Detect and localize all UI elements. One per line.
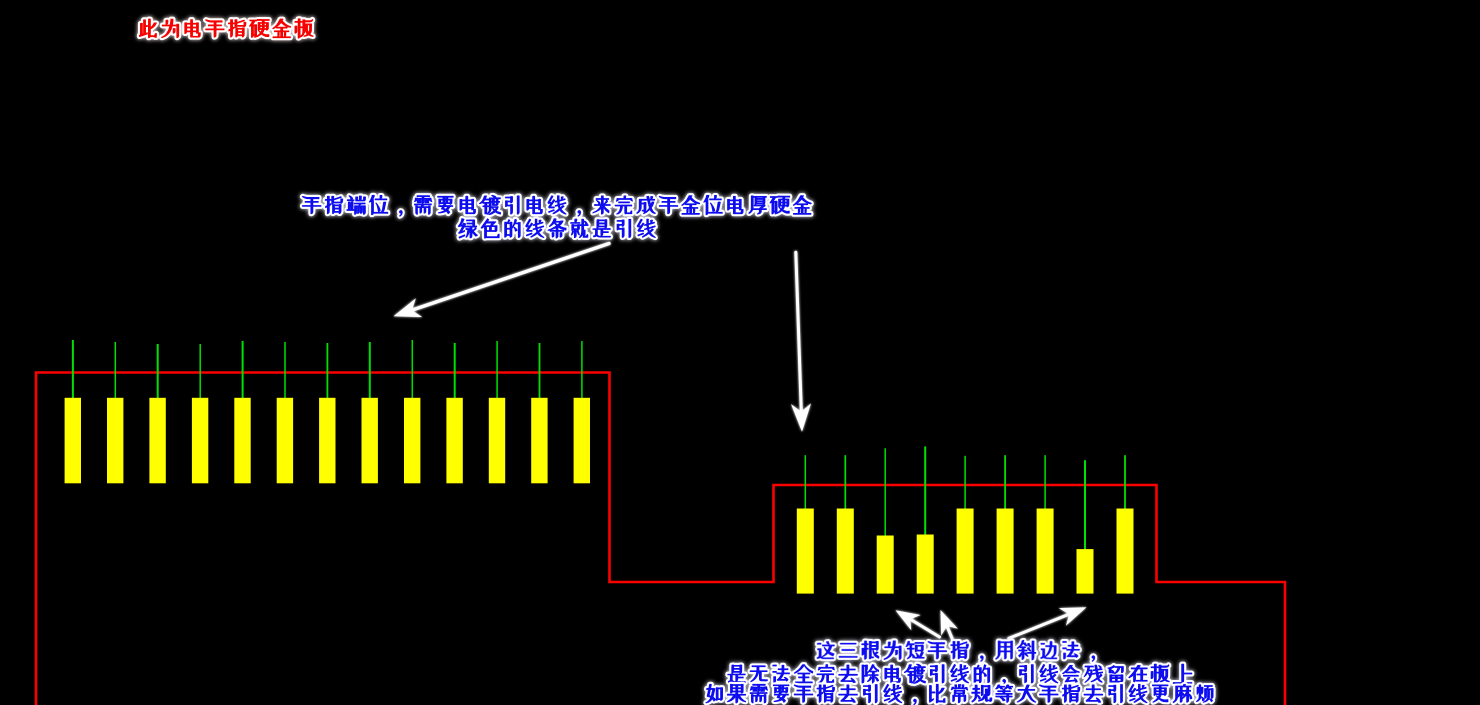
plating lead R6 (green) [1004, 455, 1006, 511]
gold finger L7 (yellow) [319, 398, 335, 484]
plating lead R8 (green) [1084, 460, 1086, 551]
annotation line: 如果需要手指去引线比常规等大手指去引线更麻烦 [706, 684, 1213, 704]
gold finger R5 (yellow) [957, 509, 974, 594]
plating lead R9 (green) [1124, 455, 1126, 511]
plating lead L6 (green) [284, 342, 286, 400]
gold finger L3 (yellow) [149, 398, 165, 484]
plating lead L11 (green) [496, 341, 498, 400]
arrow to short finger R4 [941, 610, 958, 639]
gold finger L13 (yellow) [574, 398, 590, 484]
gold finger R2 (yellow) [837, 509, 854, 594]
gold finger R7 (yellow) [1037, 509, 1054, 594]
arrow from upper annotation to right finger block [791, 252, 811, 432]
plating lead R7 (green) [1044, 455, 1046, 511]
gold finger L2 (yellow) [107, 398, 123, 484]
gold finger R9 (yellow) [1117, 509, 1134, 594]
plating lead L8 (green) [369, 342, 371, 400]
plating lead R5 (green) [964, 456, 966, 511]
annotation line: 是无法全完去除电镀引线的引线会残留在板上 [728, 664, 1192, 685]
gold finger L1 (yellow) [65, 398, 81, 484]
plating lead R2 (green) [844, 455, 846, 511]
annotation line: 这三根为短手指用斜边法 [817, 640, 1095, 661]
title: 此为电手指硬金板 (red) [139, 19, 313, 38]
plating lead L1 (green) [72, 340, 74, 400]
plating lead R3 (green) [884, 448, 886, 538]
annotation line: 手指端位需要电镀引电线来完成手金位电厚硬金 [302, 195, 811, 216]
plating lead L3 (green) [157, 344, 159, 400]
plating lead L7 (green) [326, 343, 328, 400]
plating lead R4 (green) [924, 446, 926, 537]
annotation line: 绿色的线条就是引线 [458, 219, 655, 239]
PCB board outline (red) [36, 373, 1285, 705]
gold finger R4 (short) (yellow) [917, 535, 934, 594]
gold finger L12 (yellow) [531, 398, 547, 484]
gold finger R3 (short) (yellow) [877, 536, 894, 594]
gold finger L9 (yellow) [404, 398, 420, 484]
gold finger R8 (shortest) (yellow) [1077, 549, 1094, 594]
gold finger L4 (yellow) [192, 398, 208, 484]
gold finger L8 (yellow) [362, 398, 378, 484]
plating lead L5 (green) [242, 341, 244, 400]
gold finger R6 (yellow) [997, 509, 1014, 594]
plating lead L9 (green) [411, 340, 413, 400]
plating lead R1 (green) [804, 455, 806, 511]
gold finger L10 (yellow) [446, 398, 462, 484]
gold finger L5 (yellow) [234, 398, 250, 484]
arrow to shortest finger R8 [1009, 607, 1087, 638]
gold finger L11 (yellow) [489, 398, 505, 484]
plating lead L4 (green) [199, 344, 201, 400]
arrow from upper annotation to left finger block [394, 244, 610, 318]
gold finger L6 (yellow) [277, 398, 293, 484]
plating lead L10 (green) [454, 343, 456, 400]
plating lead L13 (green) [581, 341, 583, 400]
plating lead L2 (green) [114, 342, 116, 400]
gold finger R1 (yellow) [797, 509, 814, 594]
arrow to short finger R3 [896, 610, 940, 637]
plating lead L12 (green) [539, 343, 541, 400]
